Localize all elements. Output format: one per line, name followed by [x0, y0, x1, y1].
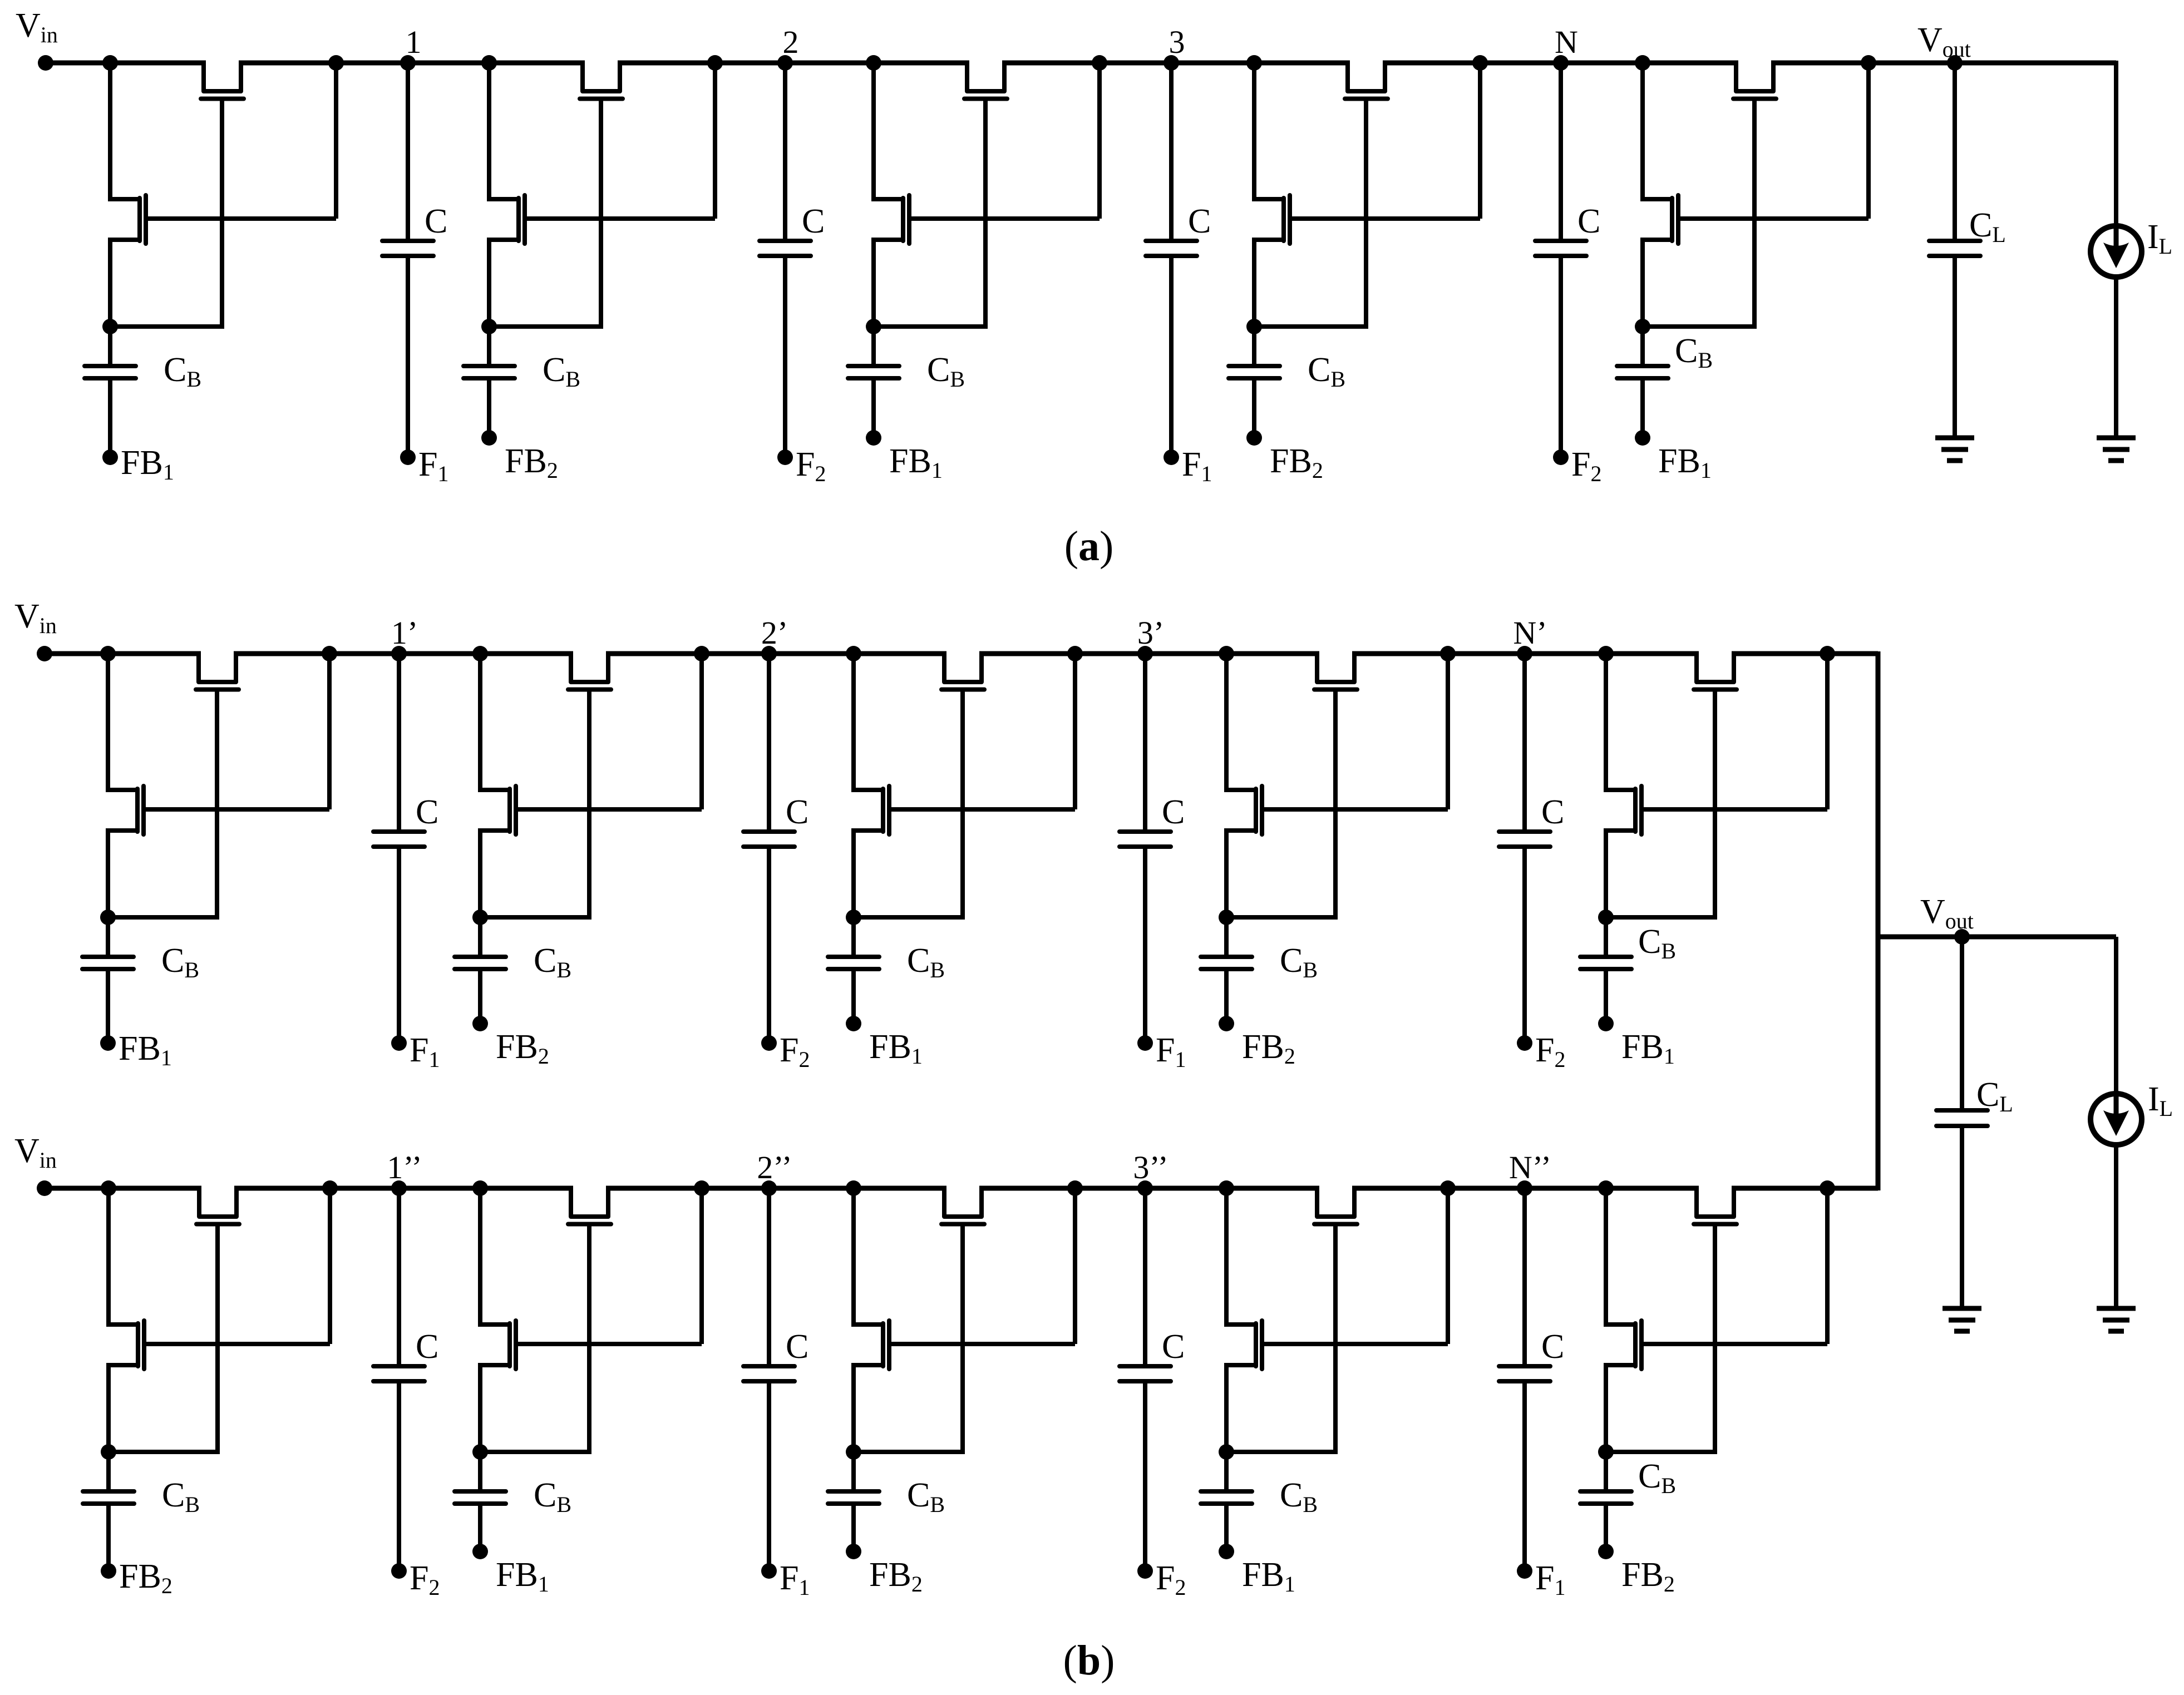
transistor: pass MOSFET stage 1 (b top) (source/drain U + gate bar + gate lead): [199, 654, 236, 682]
node: Vin terminal (a): [38, 55, 53, 71]
node: input junction dot, stage 4 (b top): [1219, 646, 1234, 661]
transistor: pass MOSFET stage 3 (b bottom) (source/drain U + gate bar + gate lead): [944, 1188, 982, 1217]
wire: branch from input node down to bootstrap transistor, stage 3 (a): [871, 63, 876, 201]
wire: rail (b bottom) stage 3 input segment: [769, 1186, 946, 1191]
transistor: bootstrap MOSFET stage 2 (a) (drain/source leads + channel bar + gate bar + gate lead): [489, 197, 519, 201]
node: CB junction dot, stage 2 (b bottom): [472, 1444, 488, 1460]
wire: rail (a) stage 4 output segment: [1383, 61, 1561, 66]
svg-text:N’’: N’’: [1509, 1149, 1551, 1185]
svg-text:Vout: Vout: [1920, 893, 1974, 933]
capacitor CB stage 1 (a): [108, 327, 112, 366]
wire: CB junction horizontal (pass gate to CB top), stage 3 (b top): [854, 915, 965, 920]
node: clock terminal F2 for node 2 (a): [777, 449, 793, 465]
node: gate-return junction on rail, stage 2 (b bottom): [694, 1180, 709, 1196]
wire: rail (b top) stage 2 output segment: [606, 651, 769, 656]
wire: rail (b top) stage 4 output segment: [1352, 651, 1525, 656]
svg-text:CB: CB: [162, 1476, 200, 1517]
wire: bootstrap gate return to output node, stage 3 (b bottom): [1073, 1190, 1077, 1344]
transistor: bootstrap MOSFET stage 2 (b top) (drain/source leads + channel bar + gate bar + gate lead): [480, 788, 510, 792]
wire: CB junction horizontal (pass gate to CB top), stage 1 (a): [110, 324, 224, 329]
svg-text:F2: F2: [796, 446, 826, 486]
node: gate-return junction on rail, stage 2 (b top): [694, 646, 709, 661]
svg-text:FB1: FB1: [496, 1556, 549, 1597]
svg-text:2’: 2’: [761, 615, 788, 651]
node: input junction dot, stage 3 (b bottom): [846, 1180, 861, 1196]
capacitor C at node 1’’ (b bottom): [397, 1188, 401, 1366]
transistor: pass MOSFET stage 3 (a) (source/drain U + gate bar + gate lead): [967, 63, 1004, 91]
wire: CB junction horizontal (pass gate to CB top), stage 2 (b bottom): [480, 1450, 591, 1454]
wire: bootstrap gate return to output node, stage 4 (b top): [1446, 656, 1450, 809]
wire: bootstrap gate return to output node, stage 5 (a): [1866, 65, 1871, 219]
node: CB junction dot, stage 4 (a): [1246, 319, 1262, 334]
transistor: pass MOSFET stage 2 (b top) (source/drain U + gate bar + gate lead): [571, 654, 608, 682]
node: CB junction dot, stage 4 (b top): [1219, 910, 1234, 925]
capacitor CB stage 1 (b bottom): [106, 1452, 111, 1491]
wire: rail (b top) stage 4 input segment: [1145, 651, 1319, 656]
svg-text:C: C: [786, 1328, 808, 1366]
wire: branch from input node down to bootstrap transistor, stage 2 (b top): [478, 654, 482, 792]
transistor: pass MOSFET stage 4 (b top) (source/drain U + gate bar + gate lead): [1317, 654, 1354, 682]
transistor: bootstrap MOSFET stage 5 (b top) (drain/source leads + channel bar + gate bar + gate lead): [1606, 788, 1635, 792]
node: clock terminal FB2 stage 3 (b bottom): [846, 1544, 861, 1559]
wire: source down to CB junction, stage 1 (b bottom): [106, 1363, 111, 1452]
node: CB junction dot, stage 5 (b top): [1598, 910, 1614, 925]
node: clock terminal F2 for node 2’ (b top): [761, 1035, 777, 1051]
wire: branch from input node down to bootstrap transistor, stage 4 (b bottom): [1224, 1188, 1229, 1327]
node: rail node 1 (a): [400, 55, 416, 71]
node: rail node 1’ (b top): [391, 646, 407, 661]
node: clock terminal FB1 stage 3 (b top): [846, 1016, 861, 1031]
wire: current source to ground (a): [2114, 276, 2118, 438]
node: clock terminal FB1 stage 4 (b bottom): [1219, 1544, 1234, 1559]
node: gate-return junction on rail, stage 4 (a): [1472, 55, 1488, 71]
wire: rail (b top) stage 1 output segment: [234, 651, 399, 656]
capacitor CB stage 2 (b top): [478, 917, 482, 957]
node: Vin terminal bottom chain (b): [37, 1180, 52, 1196]
capacitor CL (a): [1953, 63, 1957, 241]
node: input junction dot, stage 1 (b bottom): [101, 1180, 116, 1196]
wire: branch from input node down to bootstrap transistor, stage 3 (b bottom): [851, 1188, 856, 1327]
node: clock terminal FB2 stage 2 (a): [481, 430, 497, 446]
node: clock terminal FB1 stage 5 (b top): [1598, 1016, 1614, 1031]
wire: rail (b bottom) stage 2 input segment: [399, 1186, 573, 1191]
node: gate-return junction on rail, stage 3 (b bottom): [1067, 1180, 1083, 1196]
wire: rail down to current source (a): [2114, 61, 2118, 226]
svg-text:F1: F1: [1156, 1031, 1186, 1072]
ground: below IL (b): [2097, 1306, 2136, 1311]
wire: bootstrap gate return to output node, stage 2 (b bottom): [699, 1190, 704, 1344]
wire: rail (b bottom) stage 1 input segment: [45, 1186, 201, 1191]
node: clock terminal F1 for node 3 (a): [1164, 449, 1179, 465]
svg-text:IL: IL: [2147, 218, 2172, 259]
svg-text:FB2: FB2: [1270, 442, 1323, 483]
node: gate-return junction on rail, stage 1 (a): [328, 55, 344, 71]
capacitor C at node N’ (b top): [1522, 654, 1527, 832]
wire: bootstrap gate return to output node, stage 3 (a): [1097, 65, 1102, 219]
svg-text:CB: CB: [534, 1476, 571, 1517]
wire: source down to CB junction, stage 4 (b bottom): [1224, 1363, 1229, 1452]
transistor: pass MOSFET stage 2 (a) (source/drain U + gate bar + gate lead): [583, 63, 620, 91]
node: clock terminal F2 for node 1’’ (b bottom): [391, 1563, 407, 1579]
svg-text:F2: F2: [1156, 1559, 1186, 1600]
node: CB junction dot, stage 1 (a): [102, 319, 118, 334]
svg-text:CB: CB: [1280, 1476, 1318, 1517]
svg-text:C: C: [1577, 202, 1600, 240]
svg-text:(a): (a): [1064, 523, 1114, 570]
wire: rail (a) stage 5 input segment: [1561, 61, 1738, 66]
transistor: pass MOSFET stage 5 (a) (source/drain U + gate bar + gate lead): [1736, 63, 1773, 91]
wire: output bus joining both chains (b): [1876, 651, 1881, 1190]
node: clock terminal FB2 stage 4 (a): [1246, 430, 1262, 446]
svg-text:FB1: FB1: [869, 1028, 923, 1069]
svg-text:1: 1: [406, 24, 422, 60]
wire: source down to CB junction, stage 5 (b top): [1604, 828, 1608, 917]
svg-text:FB2: FB2: [496, 1028, 549, 1069]
wire: rail (b top) stage 5 output segment: [1732, 651, 1878, 656]
node: CB junction dot, stage 2 (b top): [472, 910, 488, 925]
svg-text:Vin: Vin: [16, 7, 58, 47]
svg-text:2: 2: [783, 24, 799, 60]
wire: Vout line down to current source (b): [2114, 937, 2118, 1094]
wire: source down to CB junction, stage 5 (a): [1640, 238, 1645, 327]
wire: bootstrap gate return to output node, stage 4 (b bottom): [1446, 1190, 1450, 1344]
node: CB junction dot, stage 1 (b top): [100, 910, 116, 925]
capacitor C at node 2’’ (b bottom): [767, 1188, 771, 1366]
svg-text:Vout: Vout: [1917, 21, 1971, 62]
node: clock terminal F1 for node 1 (a): [400, 449, 416, 465]
wire: current source to ground (b): [2114, 1144, 2118, 1308]
svg-text:CB: CB: [543, 351, 580, 392]
svg-text:C: C: [802, 202, 825, 240]
wire: source down to CB junction, stage 2 (b bottom): [478, 1363, 482, 1452]
wire: source down to CB junction, stage 1 (a): [108, 238, 112, 327]
current source IL (b): [2091, 1094, 2142, 1145]
capacitor CB stage 3 (b top): [851, 917, 856, 957]
wire: rail (b top) stage 3 input segment: [769, 651, 946, 656]
svg-text:CL: CL: [1976, 1076, 2013, 1116]
capacitor CB stage 5 (a): [1640, 327, 1645, 366]
node: clock terminal F2 for node N (a): [1553, 449, 1569, 465]
wire: rail (a) stage 2 output segment: [618, 61, 785, 66]
wire: source down to CB junction, stage 5 (b bottom): [1604, 1363, 1608, 1452]
node: input junction dot, stage 4 (a): [1246, 55, 1262, 71]
node: CB junction dot, stage 3 (b top): [846, 910, 861, 925]
wire: branch from input node down to bootstrap transistor, stage 4 (b top): [1224, 654, 1229, 792]
svg-text:FB2: FB2: [1621, 1556, 1675, 1597]
node: rail node 1’’ (b bottom): [391, 1180, 407, 1196]
svg-text:F1: F1: [410, 1031, 440, 1072]
node: rail node 3’ (b top): [1137, 646, 1153, 661]
node: input junction dot, stage 4 (b bottom): [1219, 1180, 1234, 1196]
node: input junction dot, stage 1 (a): [102, 55, 118, 71]
node: rail node N (a): [1553, 55, 1569, 71]
node: input junction dot, stage 5 (a): [1635, 55, 1650, 71]
wire: CB junction horizontal (pass gate to CB top), stage 4 (b top): [1226, 915, 1338, 920]
wire: bootstrap gate return to output node, stage 4 (a): [1478, 65, 1482, 219]
wire: source down to CB junction, stage 1 (b top): [106, 828, 110, 917]
node: Vout (a): [1947, 55, 1963, 71]
transistor: pass MOSFET stage 4 (b bottom) (source/drain U + gate bar + gate lead): [1317, 1188, 1354, 1217]
transistor: bootstrap MOSFET stage 1 (a) (drain/source leads + channel bar + gate bar + gate lead): [110, 197, 140, 201]
wire: rail (b bottom) stage 4 output segment: [1352, 1186, 1525, 1191]
svg-text:CB: CB: [534, 942, 571, 982]
capacitor CB stage 4 (b top): [1224, 917, 1229, 957]
transistor: pass MOSFET stage 1 (b bottom) (source/drain U + gate bar + gate lead): [199, 1188, 236, 1217]
wire: branch from input node down to bootstrap transistor, stage 2 (a): [487, 63, 491, 201]
node: clock terminal FB2 stage 2 (b top): [472, 1016, 488, 1031]
wire: branch from input node down to bootstrap transistor, stage 5 (a): [1640, 63, 1645, 201]
transistor: bootstrap MOSFET stage 1 (b bottom) (drain/source leads + channel bar + gate bar + gate lead): [109, 1322, 138, 1327]
transistor: bootstrap MOSFET stage 4 (b bottom) (drain/source leads + channel bar + gate bar + gate lead): [1226, 1322, 1256, 1327]
capacitor C at node 3’’ (b bottom): [1143, 1188, 1147, 1366]
transistor: bootstrap MOSFET stage 3 (a) (drain/source leads + channel bar + gate bar + gate lead): [874, 197, 903, 201]
svg-text:C: C: [1541, 793, 1564, 831]
wire: rail (b top) stage 5 input segment: [1525, 651, 1699, 656]
wire: rail (a) stage 1 output segment: [239, 61, 408, 66]
node: input junction dot, stage 5 (b top): [1598, 646, 1614, 661]
node: clock terminal FB2 stage 1 (b bottom): [101, 1563, 116, 1579]
capacitor CB stage 1 (b top): [106, 917, 110, 957]
capacitor CB stage 3 (b bottom): [851, 1452, 856, 1491]
node: gate-return junction on rail, stage 4 (b bottom): [1440, 1180, 1456, 1196]
capacitor CB stage 5 (b top): [1604, 917, 1608, 957]
capacitor C at node 1 (a): [406, 63, 410, 241]
wire: branch from input node down to bootstrap transistor, stage 2 (b bottom): [478, 1188, 482, 1327]
svg-text:FB1: FB1: [1242, 1556, 1295, 1597]
node: CB junction dot, stage 4 (b bottom): [1219, 1444, 1234, 1460]
svg-text:3: 3: [1169, 24, 1185, 60]
wire: source down to CB junction, stage 4 (a): [1252, 238, 1256, 327]
wire: branch from input node down to bootstrap transistor, stage 5 (b top): [1604, 654, 1608, 792]
transistor: bootstrap MOSFET stage 5 (b bottom) (drain/source leads + channel bar + gate bar + gate lead): [1606, 1322, 1635, 1327]
ground: below IL (a): [2097, 436, 2136, 441]
svg-text:FB2: FB2: [869, 1556, 923, 1597]
svg-text:CB: CB: [1638, 923, 1676, 963]
svg-text:IL: IL: [2148, 1080, 2173, 1121]
svg-text:CB: CB: [927, 351, 965, 392]
transistor: bootstrap MOSFET stage 3 (b top) (drain/source leads + channel bar + gate bar + gate lead): [854, 788, 883, 792]
svg-text:FB1: FB1: [1621, 1028, 1675, 1069]
svg-text:FB1: FB1: [889, 442, 943, 483]
wire: rail (a) stage 3 output segment: [1002, 61, 1171, 66]
node: CB junction dot, stage 2 (a): [481, 319, 497, 334]
wire: branch from input node down to bootstrap transistor, stage 3 (b top): [851, 654, 856, 792]
svg-text:C: C: [416, 1328, 438, 1366]
svg-text:N: N: [1555, 24, 1578, 60]
wire: bootstrap gate return to output node, stage 1 (b bottom): [328, 1190, 332, 1344]
transistor: bootstrap MOSFET stage 4 (b top) (drain/source leads + channel bar + gate bar + gate lead): [1226, 788, 1256, 792]
capacitor CB stage 2 (a): [487, 327, 491, 366]
wire: CB junction horizontal (pass gate to CB top), stage 1 (b bottom): [109, 1450, 220, 1454]
node: gate-return junction on rail, stage 1 (b bottom): [322, 1180, 338, 1196]
svg-text:1’: 1’: [391, 615, 418, 651]
node: Vin terminal top chain (b): [37, 646, 52, 661]
capacitor C at node 3’ (b top): [1143, 654, 1147, 832]
wire: rail (b top) stage 3 output segment: [979, 651, 1145, 656]
wire: bootstrap gate return to output node, stage 3 (b top): [1073, 656, 1077, 809]
svg-text:CB: CB: [1638, 1457, 1676, 1498]
node: rail node 2 (a): [777, 55, 793, 71]
node: clock terminal FB2 stage 4 (b top): [1219, 1016, 1234, 1031]
wire: bootstrap gate return to output node, stage 1 (a): [334, 65, 338, 219]
capacitor C at node N’’ (b bottom): [1522, 1188, 1527, 1366]
capacitor C at node N (a): [1559, 63, 1563, 241]
svg-text:CL: CL: [1969, 206, 2006, 247]
capacitor C at node 1’ (b top): [397, 654, 401, 832]
transistor: pass MOSFET stage 5 (b bottom) (source/drain U + gate bar + gate lead): [1697, 1188, 1734, 1217]
svg-text:FB1: FB1: [119, 1030, 172, 1070]
wire: rail (b bottom) stage 3 output segment: [979, 1186, 1145, 1191]
svg-text:FB2: FB2: [1242, 1028, 1295, 1069]
transistor: pass MOSFET stage 1 (a) (source/drain U + gate bar + gate lead): [204, 63, 241, 91]
transistor: pass MOSFET stage 3 (b top) (source/drain U + gate bar + gate lead): [944, 654, 982, 682]
svg-text:Vin: Vin: [14, 597, 57, 638]
node: gate-return junction on rail, stage 3 (b top): [1067, 646, 1083, 661]
svg-text:CB: CB: [907, 942, 945, 982]
node: input junction dot, stage 2 (b top): [472, 646, 488, 661]
wire: CB junction horizontal (pass gate to CB top), stage 1 (b top): [108, 915, 219, 920]
node: clock terminal F1 for node 1’ (b top): [391, 1035, 407, 1051]
svg-text:1’’: 1’’: [387, 1149, 422, 1185]
svg-text:F2: F2: [1535, 1031, 1565, 1072]
svg-text:F2: F2: [780, 1031, 810, 1072]
node: clock terminal F1 for node 2’’ (b bottom): [761, 1563, 777, 1579]
node: clock terminal F2 for node 3’’ (b bottom): [1137, 1563, 1153, 1579]
svg-text:C: C: [425, 202, 447, 240]
transistor: pass MOSFET stage 4 (a) (source/drain U + gate bar + gate lead): [1348, 63, 1385, 91]
wire: rail (a) stage 5 output segment: [1771, 61, 2116, 66]
wire: rail (b top) stage 2 input segment: [399, 651, 573, 656]
svg-text:C: C: [786, 793, 808, 831]
wire: branch from input node down to bootstrap transistor, stage 1 (b top): [106, 654, 110, 792]
svg-text:FB2: FB2: [505, 442, 558, 483]
svg-text:F1: F1: [780, 1559, 810, 1600]
node: gate-return junction on rail, stage 5 (b top): [1820, 646, 1835, 661]
wire: rail (b bottom) stage 4 input segment: [1145, 1186, 1319, 1191]
wire: source down to CB junction, stage 3 (b bottom): [851, 1363, 856, 1452]
capacitor C at node 2 (a): [783, 63, 787, 241]
wire: CB junction horizontal (pass gate to CB top), stage 5 (a): [1643, 324, 1757, 329]
svg-text:N’: N’: [1513, 615, 1547, 651]
capacitor CB stage 2 (b bottom): [478, 1452, 482, 1491]
svg-text:FB1: FB1: [121, 444, 174, 485]
svg-text:CB: CB: [1308, 351, 1345, 392]
wire: rail (b bottom) stage 5 output segment: [1732, 1186, 1878, 1191]
wire: rail (a) stage 4 input segment: [1171, 61, 1350, 66]
wire: CB junction horizontal (pass gate to CB top), stage 2 (b top): [480, 915, 591, 920]
svg-text:CB: CB: [161, 942, 199, 982]
node: rail node 3’’ (b bottom): [1137, 1180, 1153, 1196]
node: input junction dot, stage 1 (b top): [100, 646, 116, 661]
node: rail node 3 (a): [1164, 55, 1179, 71]
wire: rail (b bottom) stage 5 input segment: [1525, 1186, 1699, 1191]
node: gate-return junction on rail, stage 5 (a): [1861, 55, 1876, 71]
wire: bootstrap gate return to output node, stage 5 (b bottom): [1825, 1190, 1830, 1344]
capacitor C at node 3 (a): [1169, 63, 1174, 241]
wire: bootstrap gate return to output node, stage 2 (a): [713, 65, 717, 219]
wire: rail (a) stage 2 input segment: [408, 61, 585, 66]
transistor: bootstrap MOSFET stage 3 (b bottom) (drain/source leads + channel bar + gate bar + gate lead): [854, 1322, 883, 1327]
svg-text:F2: F2: [1571, 446, 1601, 486]
node: CB junction dot, stage 5 (a): [1635, 319, 1650, 334]
svg-text:CB: CB: [1280, 942, 1318, 982]
transistor: bootstrap MOSFET stage 2 (b bottom) (drain/source leads + channel bar + gate bar + gate lead): [480, 1322, 510, 1327]
ground: below CL (b): [1943, 1306, 1981, 1311]
transistor: bootstrap MOSFET stage 4 (a) (drain/source leads + channel bar + gate bar + gate lead): [1254, 197, 1284, 201]
svg-text:CB: CB: [907, 1476, 945, 1517]
wire: CB junction horizontal (pass gate to CB top), stage 5 (b top): [1606, 915, 1717, 920]
node: rail node N’ (b top): [1517, 646, 1532, 661]
wire: source down to CB junction, stage 4 (b top): [1224, 828, 1229, 917]
node: clock terminal FB1 stage 2 (b bottom): [472, 1544, 488, 1559]
wire: branch from input node down to bootstrap transistor, stage 1 (b bottom): [106, 1188, 111, 1327]
node: gate-return junction on rail, stage 2 (a): [707, 55, 723, 71]
svg-text:C: C: [1541, 1328, 1564, 1366]
wire: bootstrap gate return to output node, stage 1 (b top): [327, 656, 332, 809]
capacitor CB stage 4 (b bottom): [1224, 1452, 1229, 1491]
node: clock terminal F2 for node N’ (b top): [1517, 1035, 1532, 1051]
node: input junction dot, stage 5 (b bottom): [1598, 1180, 1614, 1196]
svg-text:3’: 3’: [1137, 615, 1164, 651]
svg-text:CB: CB: [1675, 332, 1713, 373]
svg-text:F1: F1: [1535, 1559, 1565, 1600]
node: clock terminal FB1 stage 3 (a): [866, 430, 881, 446]
svg-text:C: C: [1188, 202, 1211, 240]
node: gate-return junction on rail, stage 5 (b bottom): [1820, 1180, 1835, 1196]
node: input junction dot, stage 3 (b top): [846, 646, 861, 661]
capacitor CB stage 4 (a): [1252, 327, 1256, 366]
node: clock terminal FB1 stage 1 (a): [102, 449, 118, 465]
svg-text:CB: CB: [164, 351, 201, 392]
wire: source down to CB junction, stage 2 (b top): [478, 828, 482, 917]
wire: CB junction horizontal (pass gate to CB top), stage 2 (a): [489, 324, 603, 329]
node: rail node 2’’ (b bottom): [761, 1180, 777, 1196]
wire: source down to CB junction, stage 2 (a): [487, 238, 491, 327]
wire: rail (b bottom) stage 2 output segment: [606, 1186, 769, 1191]
node: clock terminal F1 for node 3’ (b top): [1137, 1035, 1153, 1051]
node: input junction dot, stage 2 (b bottom): [472, 1180, 488, 1196]
node: CB junction dot, stage 3 (a): [866, 319, 881, 334]
wire: source down to CB junction, stage 3 (a): [871, 238, 876, 327]
capacitor CL (b): [1960, 937, 1964, 1110]
node: input junction dot, stage 3 (a): [866, 55, 881, 71]
wire: rail (a) stage 1 input segment: [46, 61, 206, 66]
wire: CB junction horizontal (pass gate to CB top), stage 3 (b bottom): [854, 1450, 965, 1454]
transistor: bootstrap MOSFET stage 1 (b top) (drain/source leads + channel bar + gate bar + gate lead): [108, 788, 137, 792]
wire: branch from input node down to bootstrap transistor, stage 1 (a): [108, 63, 112, 201]
node: gate-return junction on rail, stage 1 (b top): [322, 646, 337, 661]
node: gate-return junction on rail, stage 4 (b top): [1440, 646, 1456, 661]
node: input junction dot, stage 2 (a): [481, 55, 497, 71]
wire: bootstrap gate return to output node, stage 2 (b top): [699, 656, 704, 809]
wire: CB junction horizontal (pass gate to CB top), stage 4 (a): [1254, 324, 1368, 329]
svg-text:C: C: [416, 793, 438, 831]
svg-text:(b): (b): [1063, 1637, 1115, 1684]
wire: source down to CB junction, stage 3 (b top): [851, 828, 856, 917]
wire: branch from input node down to bootstrap transistor, stage 4 (a): [1252, 63, 1256, 201]
node: clock terminal FB2 stage 5 (b bottom): [1598, 1544, 1614, 1559]
transistor: bootstrap MOSFET stage 5 (a) (drain/source leads + channel bar + gate bar + gate lead): [1643, 197, 1672, 201]
svg-text:F2: F2: [410, 1559, 440, 1600]
wire: CB junction horizontal (pass gate to CB top), stage 5 (b bottom): [1606, 1450, 1717, 1454]
wire: branch from input node down to bootstrap transistor, stage 5 (b bottom): [1604, 1188, 1608, 1327]
wire: rail (a) stage 3 input segment: [785, 61, 969, 66]
wire: Vout horizontal line (b): [1878, 935, 2116, 940]
capacitor CB stage 3 (a): [871, 327, 876, 366]
node: Vout (b): [1954, 929, 1970, 945]
ground: below CL (a): [1935, 436, 1974, 441]
svg-text:FB2: FB2: [119, 1558, 172, 1598]
